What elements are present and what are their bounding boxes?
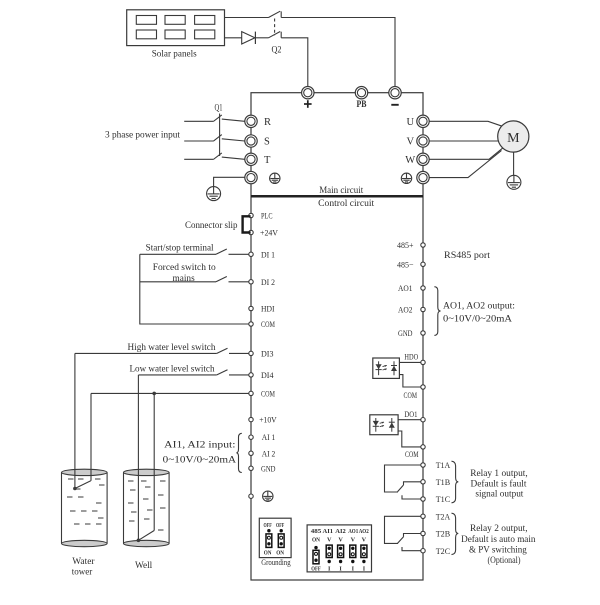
label ON V V V V (312, 536, 367, 543)
terminal T1A (421, 463, 425, 467)
svg-text:V: V (362, 536, 367, 543)
terminal COM2 (249, 391, 253, 395)
svg-text:DI4: DI4 (261, 370, 274, 380)
svg-text:OFF: OFF (264, 522, 272, 529)
breaker Q1 pole 1 (184, 115, 245, 122)
terminal DI4 (249, 373, 253, 377)
svg-text:Connector slip: Connector slip (185, 221, 238, 231)
svg-text:DI 2: DI 2 (261, 277, 275, 287)
wire (281, 18, 395, 87)
svg-text:PLC: PLC (261, 211, 273, 221)
terminal AO1 (421, 286, 425, 290)
wire V to motor (429, 140, 498, 142)
svg-text:Default is auto main: Default is auto main (461, 534, 536, 545)
svg-text:& PV switching: & PV switching (469, 545, 527, 555)
svg-text:V: V (327, 536, 332, 543)
svg-text:0~10V/0~20mA: 0~10V/0~20mA (163, 456, 237, 466)
terminal GND (249, 466, 253, 470)
terminal GND right (421, 331, 425, 335)
svg-text:(Optional): (Optional) (488, 555, 521, 566)
svg-text:T: T (264, 155, 271, 166)
svg-text:R: R (264, 117, 271, 128)
svg-text:Water: Water (72, 557, 95, 567)
label Relay 2 output (461, 524, 536, 566)
svg-text:AO2: AO2 (398, 305, 413, 315)
svg-text:M: M (507, 131, 520, 146)
terminal T1C (421, 497, 425, 501)
svg-text:0~10V/0~20mA: 0~10V/0~20mA (443, 315, 512, 325)
water dashes well (128, 481, 166, 530)
svg-text:Solar panels: Solar panels (152, 50, 197, 60)
ground PE (motor) (507, 175, 521, 189)
wire (225, 17, 269, 19)
label OFF OFF (264, 522, 285, 529)
diode D1 (242, 32, 256, 44)
switch Q2 pole 1 (269, 11, 282, 17)
motor M (498, 121, 529, 152)
svg-text:Main circuit: Main circuit (319, 186, 363, 196)
svg-text:T2C: T2C (436, 546, 451, 556)
svg-text:T2B: T2B (436, 529, 451, 539)
wire PE to motor (429, 151, 501, 178)
terminal COM1 (249, 322, 253, 326)
svg-text:T2A: T2A (436, 512, 451, 522)
svg-text:ON: ON (264, 549, 272, 556)
svg-text:DO1: DO1 (404, 409, 417, 419)
brace relay 2 (452, 513, 459, 554)
svg-text:Q1: Q1 (215, 103, 223, 113)
water dashes tower (67, 479, 105, 524)
wire to well float return (153, 393, 155, 530)
terminal +10V (249, 417, 253, 421)
svg-text:AI1, AI2 input:: AI1, AI2 input: (164, 441, 235, 451)
float switch high (tower) (73, 481, 91, 491)
label ON ON (264, 549, 285, 556)
brace AO group (434, 287, 440, 336)
svg-text:DI 1: DI 1 (261, 249, 275, 259)
svg-text:Relay 1 output,: Relay 1 output, (470, 469, 528, 479)
wire (214, 177, 245, 186)
label Water tower (72, 557, 96, 578)
svg-text:T1B: T1B (436, 477, 451, 487)
switch low water level (DI4) (139, 370, 249, 375)
ground PE (input) (207, 187, 221, 201)
svg-text:COM: COM (405, 449, 419, 459)
terminal PB (355, 87, 367, 99)
solar panel array (127, 10, 225, 46)
svg-text:DI3: DI3 (261, 348, 274, 358)
brace AI group (236, 433, 241, 472)
terminal PLC (249, 213, 253, 217)
svg-text:U: U (407, 117, 415, 128)
terminal HDO (421, 360, 425, 364)
svg-text:T1A: T1A (436, 460, 451, 470)
wire U to motor (429, 121, 502, 126)
relay T2 common blade (398, 534, 421, 544)
terminal COM4 (421, 445, 425, 449)
switch Q2 linkage (274, 19, 276, 36)
svg-text:T1C: T1C (436, 494, 451, 504)
svg-text:W: W (405, 155, 415, 166)
wire to water tower float return (90, 393, 92, 480)
svg-text:OFF: OFF (311, 565, 321, 572)
wire W to motor (429, 148, 503, 160)
terminal DI1 (249, 252, 253, 256)
svg-text:Relay 2 output,: Relay 2 output, (470, 524, 528, 534)
svg-text:signal output: signal output (475, 489, 523, 499)
svg-text:V: V (407, 137, 415, 148)
label AI1 AI2 input (163, 441, 237, 466)
terminal PE left (245, 171, 257, 183)
label OFF I I I I (311, 565, 365, 572)
svg-text:COM: COM (404, 390, 418, 400)
wire DI1/DI2 to COM (140, 254, 249, 324)
svg-text:+24V: +24V (260, 228, 279, 238)
svg-text:COM: COM (261, 388, 275, 398)
svg-text:AI 1: AI 1 (262, 432, 276, 442)
float switch low (well) (137, 531, 155, 543)
terminal COM3 (421, 385, 425, 389)
terminal V (417, 135, 429, 147)
svg-text:HDO: HDO (404, 351, 418, 361)
svg-text:485: 485 (311, 528, 322, 535)
switch Q2 pole 2 (269, 32, 282, 38)
svg-text:HDI: HDI (261, 304, 275, 314)
svg-text:Q2: Q2 (272, 45, 282, 55)
wire (513, 152, 515, 175)
DIP switch grounding (259, 518, 291, 557)
terminal DI3 (249, 351, 253, 355)
terminal PE right (417, 171, 429, 183)
wire HDO COM (399, 375, 420, 387)
wire (225, 37, 242, 39)
label 485 AI1 AI2 AO1 AO2 (311, 528, 369, 535)
svg-text:485+: 485+ (397, 240, 414, 250)
svg-text:V: V (338, 536, 343, 543)
svg-text:V: V (351, 536, 356, 543)
svg-text:+10V: +10V (259, 415, 277, 425)
wire to water tower float (74, 353, 76, 488)
terminal DC+ (302, 87, 314, 99)
ground symbol (internal left) (270, 173, 280, 183)
relay T2 NC contact (402, 547, 421, 551)
switch start/stop (140, 249, 249, 254)
relay T2 contact NO path (385, 516, 421, 543)
terminal S (245, 135, 257, 147)
breaker Q1 pole 2 (184, 135, 245, 142)
DIP switch 485/AI1/AI2/AO1/AO2 (307, 525, 371, 572)
breaker Q1 pole 3 (184, 153, 245, 160)
water tower tank (62, 469, 108, 547)
terminal AO2 (421, 307, 425, 311)
svg-text:Low water level switch: Low water level switch (130, 365, 215, 375)
svg-text:AO1, AO2 output:: AO1, AO2 output: (443, 302, 515, 312)
svg-text:AO1: AO1 (348, 528, 358, 535)
svg-text:485−: 485− (397, 260, 414, 270)
svg-text:ON: ON (276, 549, 284, 556)
terminal T1B (421, 480, 425, 484)
label + (304, 100, 312, 108)
svg-text:OFF: OFF (276, 522, 284, 529)
terminal AI2 (249, 451, 253, 455)
inverter main block (251, 93, 423, 580)
label Forced switch to mains (153, 263, 216, 284)
wire (255, 37, 268, 39)
relay T1 contact NO path (385, 465, 421, 492)
terminal 485- (421, 262, 425, 266)
relay T1 NC contact (402, 495, 421, 499)
svg-text:Control circuit: Control circuit (318, 199, 374, 209)
label AO1 AO2 output (443, 302, 515, 325)
label - (391, 104, 398, 106)
terminal DI2 (249, 280, 253, 284)
terminal T2C (421, 549, 425, 553)
svg-text:COM: COM (261, 319, 275, 329)
terminal U (417, 115, 429, 127)
svg-text:PB: PB (357, 100, 368, 110)
svg-text:Start/stop terminal: Start/stop terminal (146, 243, 214, 253)
terminal +24V (249, 230, 253, 234)
terminal R (245, 115, 257, 127)
terminal T2A (421, 514, 425, 518)
svg-text:AO2: AO2 (359, 528, 369, 535)
svg-text:tower: tower (72, 568, 93, 578)
wire (281, 38, 308, 87)
brace relay 1 (452, 461, 459, 503)
svg-text:RS485 port: RS485 port (444, 251, 490, 261)
svg-text:AO1: AO1 (398, 283, 413, 293)
wire DO1 COM (398, 431, 421, 447)
optocoupler HDO output (373, 358, 400, 378)
terminal T2B (421, 531, 425, 535)
terminal W (417, 153, 429, 165)
optocoupler DO1 output (370, 415, 398, 435)
svg-text:Grounding: Grounding (261, 557, 291, 567)
terminal PE bottom (249, 494, 253, 498)
well tank (124, 469, 170, 547)
switch forced-to-mains (140, 277, 249, 282)
wire DO1 (398, 419, 421, 421)
svg-text:GND: GND (398, 328, 413, 338)
svg-text:S: S (264, 137, 270, 148)
main/control divider (251, 195, 423, 198)
breaker Q1 linkage (219, 114, 221, 157)
svg-text:3 phase power input: 3 phase power input (105, 130, 180, 140)
svg-text:GND: GND (261, 463, 276, 473)
relay T1 common blade (398, 482, 421, 492)
label Relay 1 output (470, 469, 528, 499)
terminal AI1 (249, 435, 253, 439)
terminal DO1 (421, 418, 425, 422)
ground symbol (internal right) (401, 173, 411, 183)
svg-text:Forced switch to: Forced switch to (153, 263, 216, 273)
connector slip jumper (243, 216, 251, 232)
svg-text:AI1: AI1 (323, 528, 334, 535)
terminal DC- (389, 87, 401, 99)
wire HDO (399, 361, 420, 363)
switch high water level (DI3) (75, 348, 249, 353)
svg-text:ON: ON (312, 536, 320, 543)
svg-text:Default is fault: Default is fault (471, 479, 527, 490)
terminal HDI (249, 306, 253, 310)
wire to well float (137, 375, 139, 540)
wire COM to tanks (91, 392, 249, 394)
ground symbol (internal bottom) (263, 491, 273, 501)
svg-text:High water level switch: High water level switch (128, 343, 216, 353)
terminal T (245, 153, 257, 165)
terminal 485+ (421, 243, 425, 247)
svg-text:AI2: AI2 (335, 528, 346, 535)
svg-text:AI 2: AI 2 (262, 448, 276, 458)
junction COM (152, 392, 156, 396)
svg-text:Well: Well (135, 561, 153, 571)
